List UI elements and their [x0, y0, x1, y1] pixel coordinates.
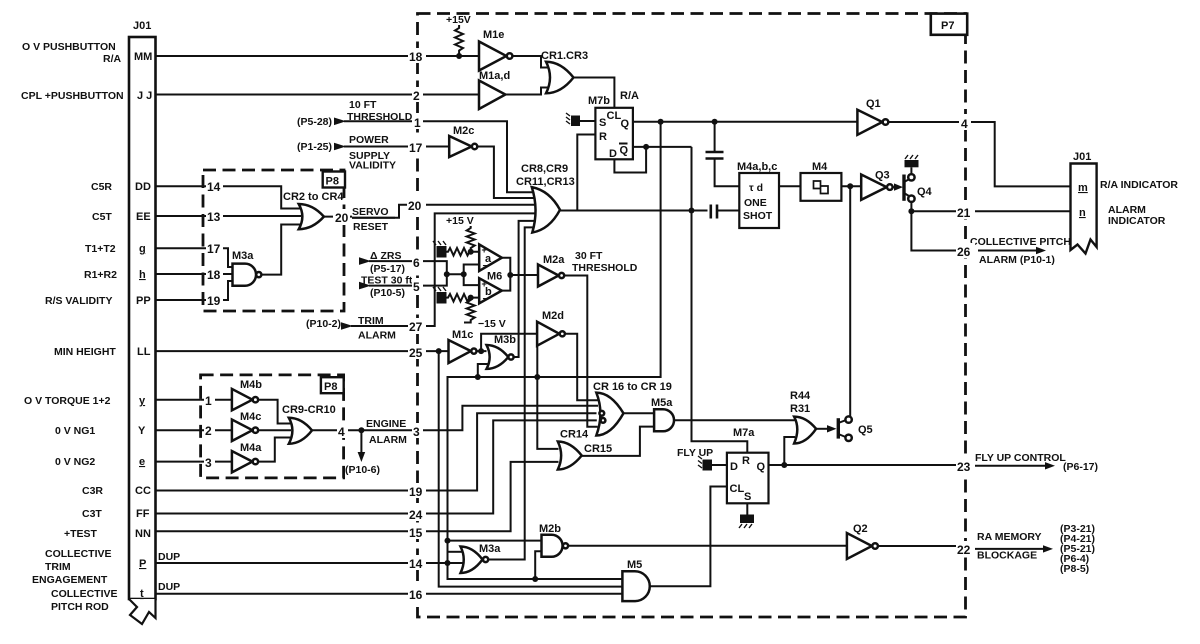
svg-text:3: 3 [205, 456, 212, 470]
svg-text:e: e [139, 456, 145, 468]
svg-text:19: 19 [409, 485, 423, 499]
wire DD to CR2-CR4 top input [203, 186, 301, 208]
wire M2a out down to CR16 input [564, 276, 597, 427]
wire DD to P8 pin 14 [156, 185, 204, 187]
svg-text:CR11,CR13: CR11,CR13 [516, 176, 575, 188]
capacitor C (Q-bar line to one-shot lower input) [711, 205, 740, 219]
svg-text:LL: LL [137, 346, 151, 358]
wire M7b Q output line [633, 121, 858, 123]
svg-text:NN: NN [135, 528, 151, 540]
wire Q-return down to CR14 top input [537, 346, 558, 449]
svg-text:ALARM (P10-1): ALARM (P10-1) [979, 254, 1055, 266]
svg-text:(P10-2): (P10-2) [306, 318, 341, 330]
external input TEST 30 ft (P10-5) to pin 5 [359, 275, 418, 300]
AND gate M5 [622, 559, 649, 601]
wire M7b D loop from Q-bar [614, 147, 646, 173]
ENGINE ALARM label [366, 418, 407, 446]
svg-text:P: P [139, 558, 146, 570]
one-shot M4a,b,c [737, 161, 779, 228]
wire M3a top input stub [448, 551, 462, 553]
svg-text:(P5-28): (P5-28) [297, 116, 332, 128]
P7 label box [931, 14, 967, 35]
svg-text:20: 20 [335, 211, 349, 225]
+15V supply with resistor R (top left) [446, 14, 471, 59]
hatch terminal above Q4 [905, 155, 919, 174]
svg-text:COLLECTIVE PITCH: COLLECTIVE PITCH [970, 236, 1071, 248]
P8 dashed border (lower) [201, 375, 344, 478]
svg-text:J J: J J [137, 90, 152, 102]
svg-text:y: y [139, 395, 146, 407]
junction Q to lower logic [658, 119, 664, 125]
svg-text:24: 24 [409, 508, 423, 522]
svg-text:FLY UP: FLY UP [677, 447, 713, 459]
NOR gate M3a [461, 543, 502, 573]
wire M7b Q-bar output [633, 146, 692, 148]
NAND gate M2b [539, 523, 568, 557]
hatch terminal below M7a S [739, 503, 754, 528]
P8 label box (lower) [321, 377, 344, 393]
svg-text:R/A INDICATOR: R/A INDICATOR [1100, 179, 1178, 191]
wire M2b top input line [448, 540, 543, 542]
svg-text:M2b: M2b [539, 523, 561, 535]
wire CR1.CR3 out to M7b CL (top entry) [574, 78, 615, 108]
OR gate CR2 to CR4 [283, 191, 344, 229]
svg-text:14: 14 [409, 557, 423, 571]
pulse shaper M4 [801, 161, 842, 201]
svg-text:TRIM: TRIM [45, 561, 71, 573]
junction Q-return at M2b top line [445, 538, 451, 544]
svg-text:R44: R44 [790, 390, 811, 402]
comparator M6b [479, 271, 502, 306]
svg-text:14: 14 [207, 180, 221, 194]
svg-text:MM: MM [134, 51, 152, 63]
svg-text:POWER: POWER [349, 134, 389, 146]
svg-text:n: n [1079, 207, 1086, 219]
svg-text:PP: PP [136, 295, 151, 307]
svg-text:M3a: M3a [479, 543, 501, 555]
svg-text:M2c: M2c [453, 125, 474, 137]
svg-text:SERVO: SERVO [352, 206, 389, 218]
svg-text:27: 27 [409, 320, 423, 334]
wire CR8 output to one-shot trigger line [560, 210, 708, 212]
wire M4 to Q3 [841, 185, 861, 187]
svg-text:C5T: C5T [92, 211, 112, 223]
COLLECTIVE PITCH ALARM external label [970, 236, 1071, 266]
inverter M1e [479, 29, 512, 71]
NOR gate M3b [487, 334, 517, 369]
P7 left border pin numbers [407, 48, 426, 602]
svg-text:1: 1 [205, 394, 212, 408]
svg-text:R: R [599, 131, 607, 143]
wire CR16 out to M5a [624, 412, 655, 414]
wire pin 3 up to CR16 input [418, 406, 599, 431]
svg-text:BLOCKAGE: BLOCKAGE [977, 550, 1037, 562]
svg-text:S: S [744, 491, 751, 503]
svg-text:19: 19 [207, 294, 221, 308]
svg-text:ENGINE: ENGINE [366, 418, 406, 430]
connector J01 (right) [1071, 151, 1097, 254]
RA MEMORY BLOCKAGE external label [966, 523, 1096, 575]
junction Q to capacitor [712, 119, 718, 125]
svg-text:−15 V: −15 V [478, 318, 506, 330]
wire M4b out to CR9-CR10 top input [258, 400, 291, 424]
wire M4c out to CR9-CR10 middle input [258, 429, 291, 431]
wire M2b bottom input stub from lower line [535, 551, 542, 579]
svg-text:18: 18 [207, 268, 221, 282]
wire pin 5 to comparator input node [418, 274, 447, 285]
svg-text:6: 6 [413, 256, 420, 270]
wire Q-bar down to M7a R [692, 147, 748, 453]
wire M5a out to R44/R31 [674, 419, 794, 421]
svg-text:1: 1 [414, 116, 421, 130]
junction M4 out to Q5 [847, 183, 853, 189]
inverter Q3 [861, 170, 892, 200]
svg-text:5: 5 [413, 280, 420, 294]
wire PP to M3a NAND bottom input [203, 281, 233, 300]
svg-text:(P10-5): (P10-5) [370, 287, 405, 299]
external input (P1-25) POWER SUPPLY VALIDITY to pin 17 [297, 134, 418, 172]
left external labels [21, 41, 124, 613]
inverter M2c [449, 125, 477, 157]
inverter M2d [537, 310, 565, 346]
wire pin 25 vertical down to M5 middle input [439, 351, 623, 586]
wire g to M3a NAND top input [203, 248, 233, 267]
svg-text:EE: EE [136, 211, 151, 223]
wire M6 node to M2a [510, 274, 538, 276]
svg-text:0 V NG2: 0 V NG2 [55, 456, 95, 468]
svg-text:O V PUSHBUTTON: O V PUSHBUTTON [22, 41, 116, 53]
P8 pin numbers (upper box) [206, 178, 350, 308]
wire M4a out to CR9-CR10 bottom input [258, 438, 291, 462]
wire Q2 out to pin 22 [878, 545, 966, 547]
inverter M4b [232, 379, 262, 410]
junction CR8 out / Q-bar vertical [689, 208, 695, 214]
wire M2c out down to CR8 input [477, 147, 537, 199]
svg-text:Q3: Q3 [875, 170, 890, 182]
svg-text:Q1: Q1 [866, 98, 881, 110]
wire M6 outputs join [502, 258, 511, 291]
30 FT THRESHOLD label [572, 250, 638, 274]
wire g to P8 pin 17 [156, 247, 204, 249]
external input (P10-2) TRIM ALARM to pin 27 [306, 315, 418, 342]
capacitor C (Q to one-shot) [706, 122, 740, 186]
inverter M4c [232, 411, 262, 441]
svg-text:FF: FF [136, 508, 150, 520]
svg-text:Q4: Q4 [917, 186, 933, 198]
svg-text:13: 13 [207, 210, 221, 224]
svg-text:COLLECTIVE: COLLECTIVE [45, 548, 112, 560]
svg-text:R: R [742, 455, 750, 467]
svg-text:15: 15 [409, 526, 423, 540]
svg-text:2: 2 [413, 89, 420, 103]
wire EE to P8 pin 13 [156, 215, 204, 217]
P7 dashed border [418, 14, 966, 618]
svg-text:M1e: M1e [483, 29, 504, 41]
svg-text:(P6-17): (P6-17) [1063, 461, 1098, 473]
svg-text:Q: Q [620, 145, 629, 157]
svg-text:M4a,b,c: M4a,b,c [737, 161, 777, 173]
+15 V supply with resistor (M6 comparator) [446, 215, 475, 255]
hatch + input resistor to comparator b [433, 287, 479, 304]
junction Q-return to CR14 [534, 374, 540, 380]
wire NN to P7 pin 15 [156, 530, 418, 532]
inverter M1c [449, 329, 477, 363]
flip-flop M7a [727, 427, 769, 503]
svg-text:b: b [485, 286, 492, 298]
svg-text:J01: J01 [133, 20, 151, 32]
wire M7b Q return line (y377) [448, 122, 661, 579]
svg-text:M4c: M4c [240, 411, 261, 423]
svg-text:M5: M5 [627, 559, 642, 571]
svg-text:M1a,d: M1a,d [479, 70, 510, 82]
connector J01 left pin letters [134, 51, 152, 600]
wire pin 24 up to CR16 input (bubble) [418, 420, 597, 513]
P8 pin numbers (lower box) [204, 392, 348, 470]
svg-text:C3R: C3R [82, 485, 103, 497]
svg-text:CR 16 to CR 19: CR 16 to CR 19 [593, 381, 672, 393]
svg-text:CL: CL [607, 110, 622, 122]
inverter M2a [538, 254, 565, 287]
svg-text:2: 2 [205, 424, 212, 438]
wire pin 2 to M1a,d [418, 94, 480, 96]
inverter Q2 [847, 523, 878, 559]
svg-text:RA MEMORY: RA MEMORY [977, 531, 1042, 543]
wire M5 output up to M7a CL [650, 487, 727, 587]
wire pin 19 up to CR16 input (bubble) [418, 413, 597, 490]
wire y to P8 pin 1 [156, 399, 201, 401]
svg-text:CR8,CR9: CR8,CR9 [521, 163, 568, 175]
svg-text:M3b: M3b [494, 334, 516, 346]
svg-text:(P10-6): (P10-6) [345, 464, 380, 476]
svg-text:M6: M6 [487, 271, 502, 283]
svg-text:m: m [1078, 182, 1088, 194]
external input Delta ZRS (P5-17) to pin 6 [359, 250, 418, 275]
wire Q1 out to pin 4 and J01 m [888, 122, 1070, 186]
svg-text:R/A: R/A [103, 53, 122, 65]
junction Q-return at pin 14 line [445, 560, 451, 566]
wire CR9-CR10 output to P8 pin 4 and P7 pin 3 (ENGINE ALARM) [312, 429, 418, 431]
node engine alarm branch [358, 427, 364, 433]
inverter M4a [232, 442, 262, 472]
junction Q-return to M3b [475, 374, 481, 380]
SERVO RESET label [352, 206, 395, 233]
wire pin 21 to J01 n [911, 210, 1070, 212]
node comparator input [444, 271, 450, 277]
svg-text:DD: DD [135, 181, 151, 193]
wire e to P8 pin 3 [156, 461, 201, 463]
AND gate M5a [651, 397, 674, 431]
wire JJ to P7 pin 2 [156, 94, 418, 96]
wire Q4 lower to pins 21 and 26 [911, 202, 965, 251]
transistor Q4 [893, 174, 933, 202]
wire pin 27 (trim alarm) up to CR8 input [418, 213, 544, 326]
svg-text:INDICATOR: INDICATOR [1108, 215, 1166, 227]
wire pin2 to M4c [201, 429, 232, 431]
svg-text:τ d: τ d [749, 182, 763, 194]
wire M1a,d out to CR1.CR3 bottom input [505, 88, 549, 95]
wire M2b output to Q2 [568, 545, 847, 547]
P7 right border pin numbers [956, 114, 975, 557]
svg-text:M7a: M7a [733, 427, 755, 439]
wire MM to P7 pin 18 [156, 55, 418, 57]
OR gate CR1.CR3 [541, 50, 588, 93]
wire M1c out up to M2d input [477, 334, 538, 351]
wire M7b R input down to CR8 output line [577, 135, 595, 211]
svg-text:(P1-25): (P1-25) [297, 141, 332, 153]
svg-text:17: 17 [207, 242, 221, 256]
wire FF to P7 pin 24 [156, 513, 418, 515]
svg-text:Q: Q [757, 461, 766, 473]
svg-text:M1c: M1c [452, 329, 473, 341]
svg-text:+TEST: +TEST [64, 528, 98, 540]
ALARM INDICATOR label [1108, 204, 1166, 227]
wire M7a Q up to R44/R31 bottom input [784, 437, 795, 465]
wire one-shot to M4 [779, 185, 801, 187]
junction pin 25 branch down [436, 348, 442, 354]
wire P (DUP) to P7 pin 14 [156, 562, 418, 564]
svg-text:M2a: M2a [543, 254, 565, 266]
external input (P5-28) 10 FT THRESHOLD to pin 1 [297, 99, 418, 128]
wire pin 18 to M1e [418, 55, 480, 57]
svg-text:S: S [599, 117, 606, 129]
svg-text:M3a: M3a [232, 250, 254, 262]
junction lower line to M2b [532, 576, 538, 582]
svg-text:R/S VALIDITY: R/S VALIDITY [45, 295, 112, 307]
flip-flop M7b [588, 90, 639, 160]
svg-text:DUP: DUP [158, 551, 180, 563]
OR gate CR 16 to CR 19 [593, 381, 672, 436]
svg-text:C3T: C3T [82, 508, 102, 520]
wire pin 14 to M3a bottom input [418, 562, 465, 564]
wire CR2-CR4 output to P8 pin 20 and P7 pin 20 (SERVO RESET) [324, 216, 352, 218]
svg-text:R/A: R/A [620, 90, 639, 102]
svg-text:CR15: CR15 [584, 443, 612, 455]
svg-text:25: 25 [409, 346, 423, 360]
svg-text:T1+T2: T1+T2 [85, 243, 116, 255]
svg-text:Q2: Q2 [853, 523, 868, 535]
svg-text:R1+R2: R1+R2 [84, 269, 117, 281]
svg-text:g: g [139, 243, 146, 255]
svg-text:CPL +PUSHBUTTON: CPL +PUSHBUTTON [21, 90, 124, 102]
svg-text:DUP: DUP [158, 581, 180, 593]
junction M1c output [478, 348, 484, 354]
wire h to M3a NAND middle input [203, 273, 233, 275]
svg-text:M7b: M7b [588, 95, 610, 107]
svg-text:R31: R31 [790, 403, 810, 415]
wire pin 25 (MIN HEIGHT) to M1c [418, 350, 449, 352]
wire CR14/15 out up to M5a bottom input [582, 427, 654, 456]
comparator M6a [479, 244, 502, 272]
wire pin 6 to comparator input node [418, 261, 447, 274]
svg-text:M2d: M2d [542, 310, 564, 322]
P8 label box (upper) [323, 172, 345, 188]
svg-text:FLY UP CONTROL: FLY UP CONTROL [975, 452, 1066, 464]
wire node to comparator a lower input and b upper input [464, 265, 480, 286]
svg-text:O V TORQUE 1+2: O V TORQUE 1+2 [24, 395, 111, 407]
FLY UP label and hatch terminal at M7a D [677, 447, 727, 471]
svg-text:17: 17 [409, 141, 423, 155]
svg-text:CR2 to CR4: CR2 to CR4 [283, 191, 344, 203]
wire M3a output up to CR8 gate [488, 227, 533, 559]
svg-text:10 FT: 10 FT [349, 99, 377, 111]
svg-text:CC: CC [135, 485, 151, 497]
svg-text:(P8-5): (P8-5) [1060, 563, 1089, 575]
svg-text:+15 V: +15 V [446, 215, 474, 227]
svg-text:CL: CL [730, 483, 745, 495]
OR gate R44/R31 [790, 390, 816, 444]
svg-text:P8: P8 [326, 176, 339, 188]
wire M3b bottom input from Q-return line [478, 364, 490, 377]
svg-text:M4b: M4b [240, 379, 262, 391]
svg-text:P7: P7 [941, 20, 954, 32]
wire EE to CR2-CR4 middle input [203, 215, 301, 217]
wire M7a Q output to pin 23 (FLY UP CONTROL) [769, 464, 966, 466]
inverter Q1 [857, 98, 888, 135]
svg-text:VALIDITY: VALIDITY [349, 160, 396, 172]
NAND gate M3a (P8) [232, 250, 261, 286]
svg-text:CR14: CR14 [560, 429, 589, 441]
wire h to P8 pin 18 [156, 273, 204, 275]
svg-text:t: t [140, 588, 144, 600]
svg-text:26: 26 [957, 245, 971, 259]
svg-text:a: a [485, 253, 492, 265]
svg-text:Q5: Q5 [858, 424, 873, 436]
wire pin1 to M4b [201, 399, 232, 401]
svg-text:PITCH ROD: PITCH ROD [51, 601, 109, 613]
svg-text:D: D [730, 461, 738, 473]
svg-text:+15V: +15V [446, 14, 471, 26]
svg-text:M4a: M4a [240, 442, 262, 454]
arrow R44/R31 out to Q5 [816, 425, 836, 432]
svg-text:ENGAGEMENT: ENGAGEMENT [32, 574, 108, 586]
svg-text:C5R: C5R [91, 181, 112, 193]
wire M2d out down to CR16 top input [565, 334, 598, 401]
svg-text:ALARM: ALARM [358, 330, 396, 342]
hatch terminal at M7b S input [566, 113, 595, 126]
hatch + input resistor to comparator a [433, 241, 479, 258]
wire M1e out to CR1.CR3 top input [512, 56, 549, 68]
junction Q-bar / D loop [643, 144, 649, 150]
svg-text:20: 20 [408, 199, 422, 213]
-15 V supply with resistor (M6 comparator) [464, 298, 506, 330]
svg-text:Q: Q [621, 118, 630, 130]
wire PP to P8 pin 19 [156, 299, 204, 301]
svg-text:4: 4 [338, 425, 345, 439]
P8 dashed border (upper) [203, 170, 344, 311]
svg-text:MIN HEIGHT: MIN HEIGHT [54, 346, 116, 358]
wire pin 16 to M5 bottom input [418, 593, 623, 595]
svg-text:22: 22 [957, 543, 971, 557]
wire M4 output node down to Q5 upper terminal [849, 186, 851, 416]
svg-text:SHOT: SHOT [743, 210, 773, 222]
wire M3a out to CR2-CR4 bottom input [261, 225, 301, 275]
svg-text:4: 4 [961, 117, 968, 131]
wire LL to P7 pin 25 [156, 350, 418, 352]
svg-text:18: 18 [409, 50, 423, 64]
svg-text:RESET: RESET [353, 221, 389, 233]
wire pin 17 to M2c [418, 146, 450, 148]
connector J01 (left) [129, 20, 156, 624]
svg-text:0 V NG1: 0 V NG1 [55, 425, 95, 437]
transistor Q5 [838, 416, 872, 441]
svg-text:30 FT: 30 FT [575, 250, 603, 262]
FLY UP CONTROL external label [966, 452, 1099, 473]
svg-text:M4: M4 [812, 161, 828, 173]
svg-text:CR1.CR3: CR1.CR3 [541, 50, 588, 62]
svg-text:h: h [139, 269, 146, 281]
wire pin 1 down to CR8 input [418, 121, 536, 192]
svg-text:21: 21 [957, 206, 971, 220]
